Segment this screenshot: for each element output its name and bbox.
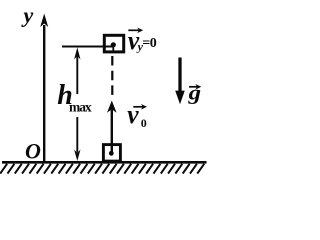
label v_y = 0 — [128, 25, 157, 55]
v0 arrow — [107, 101, 117, 153]
g arrow — [175, 58, 185, 105]
ground — [2, 161, 207, 164]
label h_max — [57, 80, 92, 115]
svg-text:g: g — [187, 81, 201, 105]
svg-text:0: 0 — [141, 116, 147, 130]
y axis — [40, 14, 48, 164]
label v0 — [127, 99, 147, 130]
ground hatching — [0, 164, 204, 174]
bottom box (ball on ground) — [103, 145, 120, 162]
svg-text:max: max — [69, 100, 92, 115]
horizontal reference line at apex — [62, 46, 113, 48]
dashed trajectory line — [111, 56, 113, 96]
top box (ball at apex) — [104, 35, 123, 53]
svg-text:v: v — [127, 99, 139, 129]
svg-text:O: O — [25, 139, 41, 164]
label g — [187, 81, 201, 105]
svg-text:=0: =0 — [142, 36, 156, 51]
h_max dimension line with arrows — [74, 47, 80, 161]
